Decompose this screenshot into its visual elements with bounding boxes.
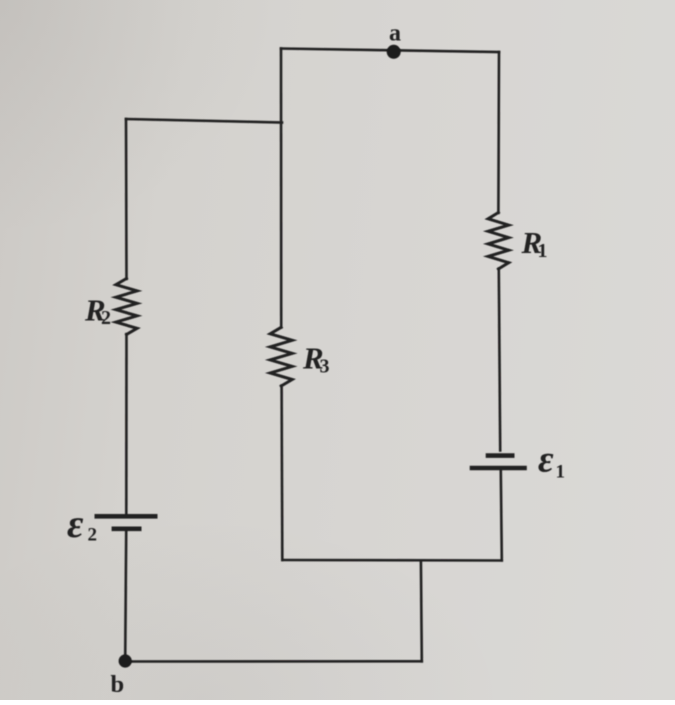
wire left vertical between R2 and battery E2 — [125, 334, 128, 514]
svg-text:b: b — [111, 671, 125, 698]
svg-text:2: 2 — [101, 307, 111, 329]
node b — [119, 654, 132, 667]
battery E1 long plate — [472, 466, 525, 471]
wire bottom of inner loop — [282, 559, 502, 562]
wire right vertical lower — [501, 471, 502, 561]
wire bottom horizontal — [125, 660, 422, 663]
battery E2 short plate — [114, 526, 139, 531]
svg-text:ε: ε — [538, 439, 554, 481]
resistor R3 — [270, 327, 292, 386]
svg-text:a: a — [389, 21, 401, 47]
wire middle vertical upper (above R3) — [280, 49, 283, 328]
node a — [387, 45, 401, 59]
svg-text:ε: ε — [67, 501, 84, 546]
wire drop from inner loop to bottom wire — [420, 561, 423, 662]
svg-text:1: 1 — [556, 462, 566, 483]
wire top horizontal (a-node wire) — [281, 49, 499, 53]
resistor R1 — [488, 213, 509, 270]
battery E1 short plate — [488, 453, 512, 458]
wire right vertical upper — [497, 52, 500, 213]
battery E2 long plate — [97, 514, 155, 519]
wire left horizontal (to middle branch) — [126, 119, 282, 123]
svg-text:3: 3 — [320, 356, 330, 378]
svg-text:2: 2 — [88, 525, 98, 546]
wire left vertical lower (to node b) — [125, 531, 126, 661]
wire right vertical between R1 and battery E1 — [499, 269, 500, 451]
resistor R2 — [116, 279, 137, 335]
wire left vertical upper (above R2) — [125, 119, 128, 279]
svg-text:1: 1 — [538, 240, 548, 262]
wire middle vertical lower (below R3) — [280, 386, 283, 561]
